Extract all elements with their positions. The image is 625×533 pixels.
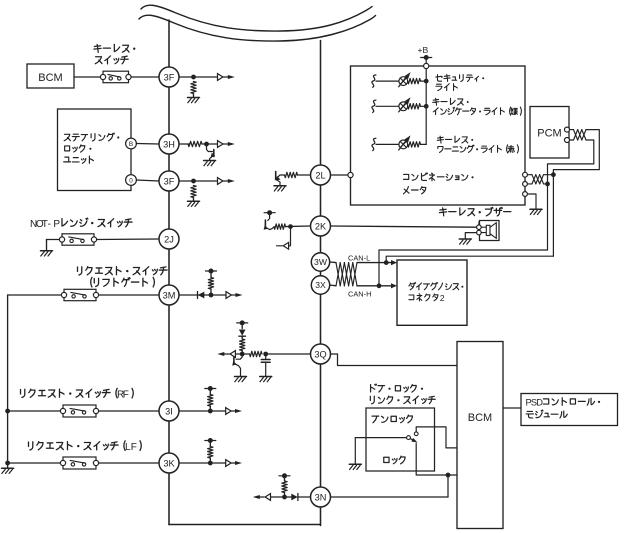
svg-text:3Q: 3Q xyxy=(314,349,326,359)
svg-text:3M: 3M xyxy=(163,290,176,300)
svg-text:P: P xyxy=(53,219,60,230)
svg-text:CAN-H: CAN-H xyxy=(348,290,371,299)
svg-text:BCM: BCM xyxy=(38,72,62,84)
svg-text:2K: 2K xyxy=(315,221,327,231)
svg-text:B: B xyxy=(129,141,133,148)
svg-text:3X: 3X xyxy=(315,280,326,290)
svg-text:2L: 2L xyxy=(315,170,325,180)
svg-text:PCM: PCM xyxy=(537,127,561,139)
svg-text:3K: 3K xyxy=(163,458,175,468)
svg-text:3F: 3F xyxy=(164,176,175,186)
svg-text:F: F xyxy=(123,390,129,401)
svg-text:-: - xyxy=(48,219,51,230)
svg-text:3F: 3F xyxy=(164,72,175,82)
svg-text:BCM: BCM xyxy=(468,412,492,424)
svg-text:2: 2 xyxy=(440,293,445,303)
svg-text:+B: +B xyxy=(418,45,429,55)
svg-text:CAN-L: CAN-L xyxy=(348,253,370,262)
svg-text:3N: 3N xyxy=(315,492,327,502)
svg-text:0: 0 xyxy=(129,177,133,184)
svg-text:F: F xyxy=(131,442,137,453)
svg-text:D: D xyxy=(536,398,543,408)
svg-text:2J: 2J xyxy=(164,234,174,244)
svg-text:3W: 3W xyxy=(314,257,328,267)
svg-text:3H: 3H xyxy=(163,139,175,149)
svg-text:3I: 3I xyxy=(165,406,173,416)
